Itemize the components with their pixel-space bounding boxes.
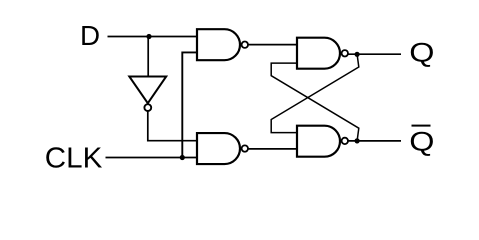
wire G4 output to Qbar bbox=[348, 140, 401, 142]
wire G1 output to G3 input bbox=[248, 44, 297, 46]
svg-text:Q: Q bbox=[409, 38, 434, 68]
wire G2 output to G4 input bbox=[248, 148, 297, 150]
nand gate G1 bubble bbox=[242, 42, 248, 48]
nand gate G4 bubble bbox=[342, 138, 348, 144]
node CLK junction bbox=[180, 155, 185, 160]
nand gate G2 bbox=[197, 133, 240, 164]
svg-text:Q: Q bbox=[409, 127, 434, 157]
nand gate G3 bubble bbox=[342, 50, 348, 56]
nand gate G2 bubble bbox=[242, 145, 248, 151]
wire D to inverter bbox=[147, 37, 149, 77]
inverter U1 bubble bbox=[144, 104, 151, 111]
nand gate G3 bbox=[297, 38, 340, 69]
wire cross coupling Qbar to G3 bbox=[271, 63, 359, 141]
wire D input bbox=[108, 36, 198, 38]
wire CLK riser to G1 input bbox=[182, 52, 197, 157]
wire CLK input bbox=[106, 157, 198, 159]
nand gate G4 bbox=[297, 126, 340, 157]
svg-text:CLK: CLK bbox=[45, 143, 103, 174]
node Q junction bbox=[355, 52, 360, 57]
wire G3 output to Q bbox=[348, 53, 401, 55]
node Qbar junction bbox=[355, 138, 360, 143]
svg-text:D: D bbox=[80, 20, 100, 51]
wire cross coupling Q to G4 bbox=[271, 54, 359, 132]
inverter U1 bbox=[129, 77, 166, 104]
label Qbar overline bbox=[412, 125, 431, 127]
node D junction bbox=[146, 34, 151, 39]
nand gate G1 bbox=[197, 29, 240, 60]
wire inverter output to G2 input bbox=[148, 112, 197, 141]
